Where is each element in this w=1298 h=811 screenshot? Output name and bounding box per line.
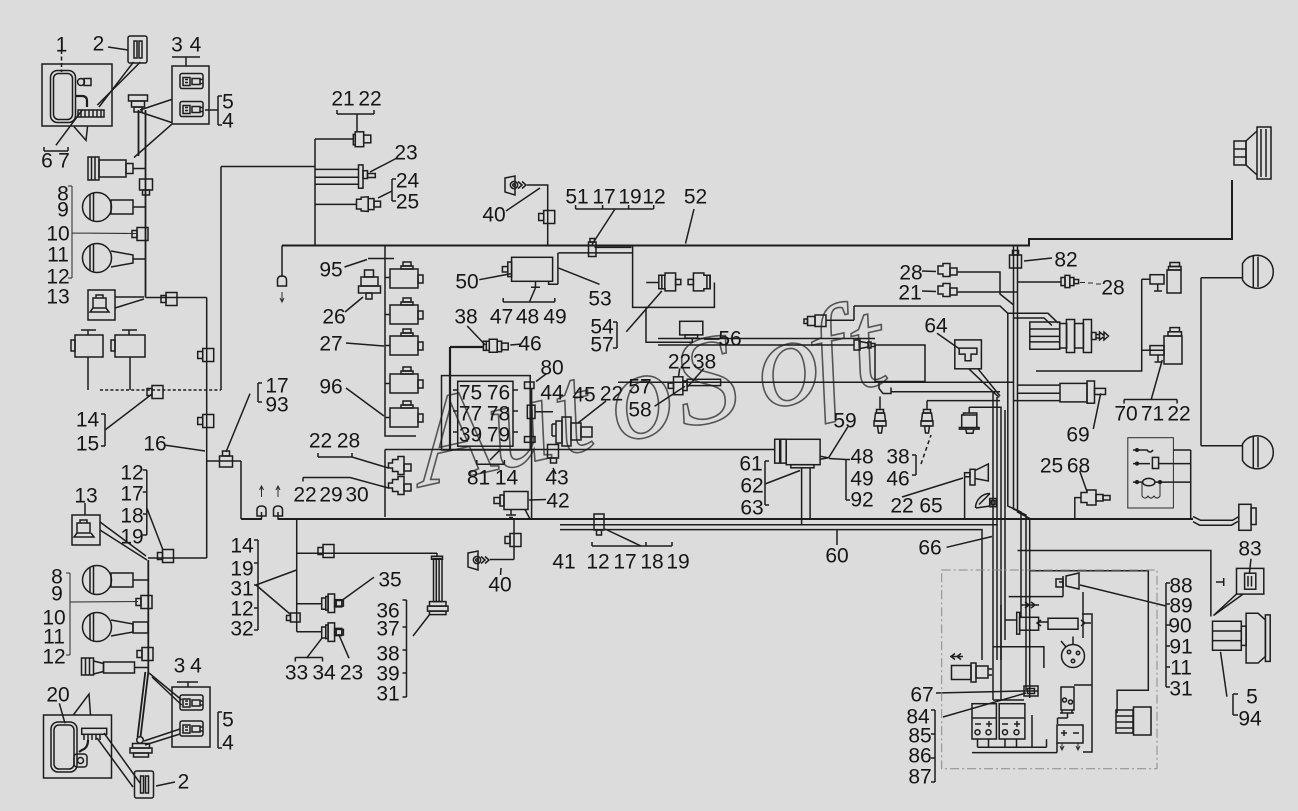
svg-text:22: 22 bbox=[668, 351, 691, 374]
svg-text:47: 47 bbox=[490, 306, 513, 329]
svg-text:71: 71 bbox=[1141, 403, 1164, 426]
svg-text:57: 57 bbox=[590, 334, 613, 357]
svg-text:53: 53 bbox=[588, 288, 611, 311]
svg-text:21: 21 bbox=[898, 282, 921, 305]
svg-text:14: 14 bbox=[495, 467, 519, 490]
svg-text:80: 80 bbox=[540, 357, 563, 380]
svg-text:5: 5 bbox=[222, 709, 234, 732]
svg-text:6: 6 bbox=[41, 150, 53, 173]
svg-text:13: 13 bbox=[46, 286, 69, 309]
svg-text:28: 28 bbox=[1101, 277, 1124, 300]
svg-text:79: 79 bbox=[487, 424, 510, 447]
svg-text:43: 43 bbox=[545, 467, 568, 490]
svg-text:35: 35 bbox=[378, 569, 401, 592]
svg-text:13: 13 bbox=[74, 485, 97, 508]
svg-text:75: 75 bbox=[459, 382, 482, 405]
svg-text:44: 44 bbox=[540, 382, 564, 405]
svg-text:25: 25 bbox=[396, 191, 419, 214]
svg-text:9: 9 bbox=[51, 583, 63, 606]
svg-text:49: 49 bbox=[850, 468, 873, 491]
svg-text:59: 59 bbox=[833, 410, 856, 433]
svg-text:68: 68 bbox=[1067, 455, 1090, 478]
svg-text:15: 15 bbox=[76, 433, 99, 456]
svg-text:62: 62 bbox=[740, 475, 763, 498]
svg-text:77: 77 bbox=[459, 403, 482, 426]
svg-text:66: 66 bbox=[918, 537, 941, 560]
svg-text:2: 2 bbox=[93, 33, 105, 56]
svg-text:23: 23 bbox=[394, 142, 417, 165]
svg-text:4: 4 bbox=[222, 732, 234, 755]
svg-text:22: 22 bbox=[600, 383, 623, 406]
svg-text:34: 34 bbox=[312, 662, 336, 685]
svg-text:12: 12 bbox=[642, 186, 665, 209]
svg-text:12: 12 bbox=[586, 551, 609, 574]
svg-text:10: 10 bbox=[46, 223, 69, 246]
svg-text:22: 22 bbox=[309, 430, 332, 453]
svg-text:16: 16 bbox=[143, 433, 166, 456]
svg-text:26: 26 bbox=[322, 306, 345, 329]
svg-text:17: 17 bbox=[592, 186, 615, 209]
svg-text:2: 2 bbox=[178, 771, 190, 794]
svg-text:45: 45 bbox=[572, 384, 595, 407]
svg-text:94: 94 bbox=[1238, 708, 1262, 731]
svg-text:12: 12 bbox=[42, 646, 65, 669]
svg-text:42: 42 bbox=[546, 490, 569, 513]
svg-text:46: 46 bbox=[518, 333, 541, 356]
svg-text:28: 28 bbox=[337, 430, 360, 453]
svg-text:38: 38 bbox=[693, 351, 716, 374]
svg-text:39: 39 bbox=[459, 424, 482, 447]
svg-text:18: 18 bbox=[640, 551, 663, 574]
svg-text:1: 1 bbox=[56, 34, 68, 57]
svg-text:38: 38 bbox=[454, 306, 477, 329]
svg-text:22: 22 bbox=[890, 495, 913, 518]
svg-text:61: 61 bbox=[739, 453, 762, 476]
svg-text:14: 14 bbox=[230, 535, 254, 558]
svg-text:4: 4 bbox=[190, 34, 202, 57]
svg-text:17: 17 bbox=[120, 483, 143, 506]
svg-text:86: 86 bbox=[908, 745, 931, 768]
svg-text:81: 81 bbox=[467, 467, 490, 490]
svg-text:93: 93 bbox=[265, 394, 288, 417]
svg-text:91: 91 bbox=[1169, 636, 1192, 659]
svg-text:82: 82 bbox=[1054, 249, 1077, 272]
svg-text:51: 51 bbox=[565, 186, 588, 209]
svg-text:12: 12 bbox=[120, 462, 143, 485]
svg-text:7: 7 bbox=[58, 150, 70, 173]
svg-text:22: 22 bbox=[1167, 403, 1190, 426]
svg-text:30: 30 bbox=[345, 484, 368, 507]
svg-text:60: 60 bbox=[825, 545, 848, 568]
svg-text:22: 22 bbox=[358, 88, 381, 111]
svg-text:9: 9 bbox=[57, 199, 69, 222]
svg-text:18: 18 bbox=[120, 505, 143, 528]
svg-text:25: 25 bbox=[1040, 455, 1063, 478]
svg-text:96: 96 bbox=[319, 376, 342, 399]
svg-text:69: 69 bbox=[1066, 424, 1089, 447]
svg-text:3: 3 bbox=[171, 34, 183, 57]
svg-text:3: 3 bbox=[174, 655, 186, 678]
svg-text:70: 70 bbox=[1114, 403, 1137, 426]
svg-text:52: 52 bbox=[684, 186, 707, 209]
svg-text:57: 57 bbox=[628, 376, 651, 399]
svg-text:31: 31 bbox=[1169, 678, 1192, 701]
svg-text:21: 21 bbox=[331, 88, 354, 111]
svg-text:31: 31 bbox=[376, 683, 399, 706]
svg-text:17: 17 bbox=[613, 551, 636, 574]
svg-text:29: 29 bbox=[319, 484, 342, 507]
svg-text:87: 87 bbox=[908, 766, 931, 789]
svg-text:76: 76 bbox=[487, 382, 510, 405]
svg-text:33: 33 bbox=[285, 662, 308, 685]
svg-text:41: 41 bbox=[552, 551, 575, 574]
svg-text:32: 32 bbox=[230, 618, 253, 641]
svg-text:83: 83 bbox=[1238, 538, 1261, 561]
svg-text:56: 56 bbox=[718, 328, 741, 351]
svg-text:92: 92 bbox=[850, 489, 873, 512]
svg-text:58: 58 bbox=[628, 399, 651, 422]
svg-text:23: 23 bbox=[340, 662, 363, 685]
svg-text:5: 5 bbox=[1246, 686, 1258, 709]
svg-text:27: 27 bbox=[319, 333, 342, 356]
svg-text:20: 20 bbox=[46, 684, 69, 707]
svg-text:63: 63 bbox=[740, 497, 763, 520]
svg-text:90: 90 bbox=[1168, 615, 1191, 638]
svg-text:46: 46 bbox=[886, 468, 909, 491]
svg-text:24: 24 bbox=[396, 170, 420, 193]
svg-text:11: 11 bbox=[47, 244, 69, 267]
svg-text:14: 14 bbox=[76, 409, 100, 432]
svg-text:64: 64 bbox=[924, 315, 948, 338]
svg-text:48: 48 bbox=[850, 446, 873, 469]
svg-text:38: 38 bbox=[886, 446, 909, 469]
svg-text:78: 78 bbox=[487, 403, 510, 426]
svg-text:95: 95 bbox=[319, 259, 342, 282]
svg-text:40: 40 bbox=[482, 204, 505, 227]
svg-text:67: 67 bbox=[910, 684, 933, 707]
svg-text:50: 50 bbox=[455, 271, 478, 294]
svg-text:19: 19 bbox=[618, 186, 641, 209]
svg-text:19: 19 bbox=[666, 551, 689, 574]
svg-text:40: 40 bbox=[488, 574, 511, 597]
svg-text:4: 4 bbox=[190, 655, 202, 678]
svg-text:19: 19 bbox=[120, 526, 143, 549]
svg-text:49: 49 bbox=[543, 306, 566, 329]
svg-text:4: 4 bbox=[222, 110, 234, 133]
svg-text:37: 37 bbox=[376, 618, 399, 641]
svg-text:11: 11 bbox=[1170, 657, 1192, 680]
svg-text:65: 65 bbox=[919, 495, 942, 518]
svg-text:22: 22 bbox=[293, 484, 316, 507]
svg-text:48: 48 bbox=[516, 306, 539, 329]
